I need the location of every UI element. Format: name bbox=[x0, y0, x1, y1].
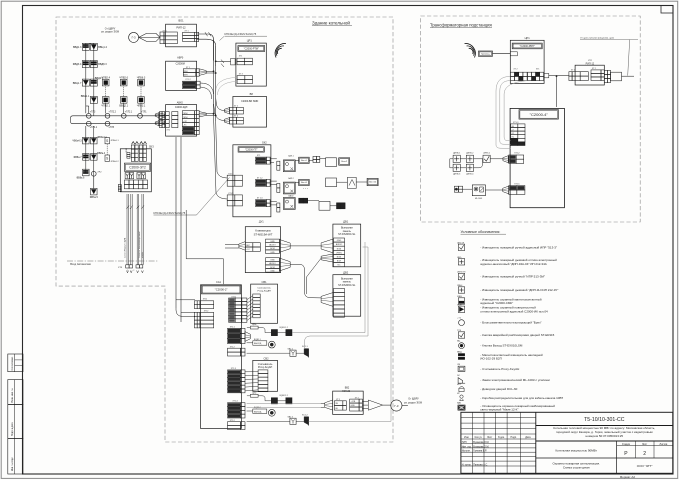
security sensor ФП8а5.1 bbox=[105, 138, 119, 144]
svg-text:ИО-102-29 Б2П: ИО-102-29 Б2П bbox=[480, 357, 501, 361]
svg-text:адресный "С2000-СМК": адресный "С2000-СМК" bbox=[480, 301, 513, 305]
svg-text:1: 1 bbox=[127, 270, 128, 272]
detector ВВД2.1 bbox=[90, 77, 104, 86]
smoke detector ДИП6.3 bbox=[453, 164, 461, 175]
svg-text:Грозозащ.: Грозозащ. bbox=[481, 53, 490, 55]
svg-text:Вход Автоматики: Вход Автоматики bbox=[70, 262, 91, 266]
antenna UR1 bbox=[275, 43, 286, 57]
circuit breaker Г-3 bbox=[129, 32, 139, 42]
svg-text:ГИП: ГИП bbox=[462, 441, 467, 444]
svg-text:БАЛ.1: БАЛ.1 bbox=[288, 155, 293, 158]
svg-text:ВВД: ВВД bbox=[457, 352, 462, 354]
svg-text:Вент1: Вент1 bbox=[301, 160, 307, 162]
detector ВВЦ2.1 row2 bbox=[119, 97, 128, 108]
svg-text:ИСТ: ИСТ bbox=[457, 384, 462, 386]
svg-text:- Извещатель пожарный ручной ": - Извещатель пожарный ручной "ИПР 513-3М… bbox=[480, 275, 545, 279]
svg-text:ST-DS306C-SL: ST-DS306C-SL bbox=[338, 233, 356, 236]
svg-text:ДИП6.3: ДИП6.3 bbox=[453, 174, 461, 176]
svg-text:ЧПВ2.6: ЧПВ2.6 bbox=[119, 77, 128, 80]
svg-text:ХТ 1.2: ХТ 1.2 bbox=[257, 177, 263, 179]
detector ФВД3.4 bbox=[73, 61, 90, 68]
terminal BB4 bbox=[225, 242, 260, 252]
svg-text:ЧПВ3.1: ЧПВ3.1 bbox=[137, 105, 146, 108]
svg-text:"С2000-4": "С2000-4" bbox=[530, 112, 549, 117]
power unit BB2 ГЗН-20 bbox=[321, 387, 363, 415]
svg-text:ST-DS306C-SL: ST-DS306C-SL bbox=[338, 284, 356, 287]
stub wires to bus bbox=[86, 103, 141, 114]
svg-text:свето-звуковой "Маяк-12-К": свето-звуковой "Маяк-12-К" bbox=[480, 408, 518, 412]
svg-text:(FER): (FER) bbox=[336, 252, 342, 254]
cabinet AVXO С2000-КДЛ bbox=[155, 101, 199, 136]
svg-text:АВХ0: АВХ0 bbox=[177, 101, 184, 104]
door switch SA2.1 bbox=[247, 347, 297, 356]
detector ФВ8а.7 bbox=[74, 154, 90, 161]
svg-text:ДВ1: ДВ1 bbox=[343, 220, 348, 224]
svg-text:ХТ11: ХТ11 bbox=[203, 299, 207, 301]
svg-text:+ТЛ1: +ТЛ1 bbox=[141, 112, 147, 114]
cable label KPSE bottom bbox=[154, 178, 230, 216]
svg-text:Согласовано: Согласовано bbox=[12, 356, 14, 371]
loop merge to KDL bbox=[159, 113, 166, 126]
svg-text:ST-MS19A-WT: ST-MS19A-WT bbox=[254, 232, 273, 236]
wires KDL right to trunk bbox=[199, 112, 216, 117]
svg-text:SC1.1: SC1.1 bbox=[302, 346, 308, 348]
svg-text:Формат А2: Формат А2 bbox=[620, 475, 635, 479]
wires trunks to CA1 grids bbox=[176, 300, 195, 317]
svg-text:Здание котельной: Здание котельной bbox=[312, 19, 350, 25]
svg-text:GND: GND bbox=[351, 405, 356, 407]
svg-text:SC: SC bbox=[457, 375, 460, 377]
svg-text:+ТЛ5: +ТЛ5 bbox=[109, 127, 115, 129]
svg-text:ДУ1: ДУ1 bbox=[259, 220, 264, 224]
dashed zone - transformer substation bbox=[421, 16, 641, 222]
exit button group XT1.5 bbox=[454, 185, 508, 200]
svg-text:GND: GND bbox=[337, 240, 342, 242]
panel DV2 ST-DS306C-SL bbox=[321, 270, 361, 317]
svg-text:Бузакова О.М.: Бузакова О.М. bbox=[473, 445, 489, 448]
block B8 С2000-БИ SMD bbox=[224, 92, 266, 127]
svg-text:Лист: Лист bbox=[487, 436, 493, 439]
wires keyboard to panel DV1 bbox=[290, 245, 321, 247]
junction UR1 to trunk bbox=[215, 61, 237, 96]
fan circuit row 3 bbox=[270, 194, 345, 212]
wires SK2 left to trunk bbox=[214, 114, 228, 199]
svg-text:Н. контр.: Н. контр. bbox=[462, 463, 472, 466]
svg-text:ВВД8.3: ВВД8.3 bbox=[98, 63, 107, 66]
svg-text:В8: В8 bbox=[250, 92, 254, 96]
svg-text:GND: GND bbox=[270, 241, 275, 243]
terminals XT8 bbox=[126, 265, 144, 273]
svg-text:в ЩРА: в ЩРА bbox=[141, 252, 144, 258]
svg-text:С2000-КДЛ: С2000-КДЛ bbox=[175, 106, 188, 109]
svg-text:ХТ1: ХТ1 bbox=[536, 69, 539, 71]
smoke detector ДИП6.4 bbox=[466, 164, 474, 175]
door switch SA2.2 bbox=[247, 415, 297, 424]
svg-text:ХТ1.4: ХТ1.4 bbox=[233, 401, 238, 403]
svg-text:2: 2 bbox=[133, 270, 134, 272]
svg-text:+12В: +12В bbox=[351, 401, 356, 403]
cable bundle Г-3 to РИП bbox=[139, 33, 160, 41]
svg-text:ВВЦ1.4: ВВЦ1.4 bbox=[98, 46, 107, 49]
svg-text:ВЦ: ВЦ bbox=[457, 341, 460, 343]
svg-text:- Замок электромеханический ML: - Замок электромеханический ML-100К с ус… bbox=[480, 378, 549, 382]
svg-text:С2000М: С2000М bbox=[176, 63, 185, 66]
security sensor ФП8а5.2 bbox=[105, 144, 119, 163]
svg-text:Сигнал "Пожар" в ЩРА: Сигнал "Пожар" в ЩРА bbox=[123, 237, 126, 258]
svg-text:ВЫХОД: ВЫХОД bbox=[254, 343, 262, 345]
svg-text:. . .: . . . bbox=[303, 186, 308, 190]
button BQB1.1 exit bbox=[247, 339, 276, 348]
svg-text:BQB1.1.2: BQB1.1.2 bbox=[280, 327, 288, 329]
legend item КР bbox=[457, 393, 563, 401]
top-right copy box bbox=[661, 6, 673, 14]
svg-text:Г-3: Г-3 bbox=[132, 36, 136, 40]
detector ВВД1.3 bbox=[73, 43, 89, 50]
svg-text:Сигнал к "Мотооповещателям": Сигнал к "Мотооповещателям" bbox=[139, 231, 141, 258]
svg-text:ДВ2: ДВ2 bbox=[343, 270, 348, 274]
svg-text:Вент10: Вент10 bbox=[369, 182, 377, 184]
door contact SC1.1 bbox=[302, 346, 309, 357]
svg-text:см. раздел ЭОМ: см. раздел ЭОМ bbox=[101, 31, 119, 34]
svg-text:Исполн.: Исполн. bbox=[462, 450, 471, 453]
svg-text:ЧВ6а4.3: ЧВ6а4.3 bbox=[72, 140, 82, 143]
detector ВВЦ1.1 row2 bbox=[81, 95, 98, 103]
svg-text:ХТ1.3: ХТ1.3 bbox=[513, 122, 519, 124]
svg-text:ГЗН-20: ГЗН-20 bbox=[342, 390, 351, 393]
radio repeater UR1 С2000-РБН substation bbox=[510, 36, 544, 83]
svg-text:ВВЦ1.7: ВВЦ1.7 bbox=[73, 82, 82, 85]
svg-text:СА1: СА1 bbox=[216, 280, 222, 284]
svg-text:ЧПВ2.1: ЧПВ2.1 bbox=[101, 105, 110, 108]
svg-text:ХТ 1: ХТ 1 bbox=[571, 70, 575, 72]
svg-text:Подп. и дата: Подп. и дата bbox=[12, 422, 14, 436]
svg-text:S: S bbox=[106, 139, 108, 143]
resistor Ц20к door2 bbox=[247, 392, 271, 400]
svg-text:Котельная мощностью 90МВт: Котельная мощностью 90МВт bbox=[555, 448, 597, 452]
svg-text:ЧПВ6.3: ЧПВ6.3 bbox=[137, 77, 146, 80]
fan circuit row 1 bbox=[270, 155, 350, 172]
wire XT8 bus to CA1 top bbox=[186, 210, 223, 284]
lower loop wires bbox=[86, 126, 94, 189]
legend item +Т1 bbox=[457, 318, 541, 326]
mains feed label substation bbox=[580, 38, 638, 76]
legend item СВ bbox=[457, 364, 519, 372]
svg-text:ДИП6.2: ДИП6.2 bbox=[466, 153, 474, 155]
svg-text:КПСЭнг(А)-FRLS 5х2х0,75: КПСЭнг(А)-FRLS 5х2х0,75 bbox=[225, 32, 257, 36]
rotated wire labels bbox=[123, 231, 144, 258]
svg-text:ЛИН: ЛИН bbox=[183, 75, 188, 77]
svg-text:BCM: BCM bbox=[337, 257, 342, 259]
title block bbox=[461, 412, 673, 473]
svg-text:ЛИН: ЛИН bbox=[183, 117, 188, 119]
svg-text:ХТ12: ХТ12 bbox=[121, 186, 123, 190]
automation input dash-dot line bbox=[67, 261, 158, 269]
svg-text:N док.: N док. bbox=[498, 436, 505, 439]
wire BO1 to trunk bbox=[197, 34, 216, 66]
loop bus 1 with Бриз isolators bbox=[73, 112, 159, 119]
svg-text:РИП-12: РИП-12 bbox=[176, 26, 186, 30]
svg-text:ФВ8а.7: ФВ8а.7 bbox=[74, 156, 83, 159]
svg-text:ХТ 3: ХТ 3 bbox=[239, 74, 243, 76]
loop bus 2 with Бриз isolators bbox=[71, 116, 159, 129]
svg-text:АВР0: АВР0 bbox=[177, 56, 184, 59]
svg-text:С2000-ЭТ2: С2000-ЭТ2 bbox=[129, 165, 146, 169]
wire UR1 to РИП bbox=[544, 74, 569, 108]
antenna substation bbox=[465, 43, 476, 57]
svg-text:S: S bbox=[106, 157, 108, 161]
door contact SC1.2 bbox=[302, 414, 309, 425]
svg-text:"С2000-РТМ": "С2000-РТМ" bbox=[244, 47, 259, 50]
wires keyboard to panel DV2 bbox=[290, 258, 321, 298]
reader CB1 Proxy-KeyAH bbox=[251, 280, 278, 323]
svg-text:ВКС: ВКС bbox=[246, 245, 250, 247]
power label bottom bbox=[404, 397, 422, 404]
cable label KPSE top bbox=[220, 32, 268, 40]
svg-text:ФВД3.4: ФВД3.4 bbox=[73, 63, 82, 66]
svg-text:Условные обозначения:: Условные обозначения: bbox=[461, 230, 501, 234]
svg-text:СВ2: СВ2 bbox=[263, 356, 269, 360]
access controller CA1 С2000-2 bbox=[194, 280, 250, 430]
svg-text:см. раздел ЭОМ: см. раздел ЭОМ bbox=[404, 402, 422, 405]
svg-text:+ЛС: +ЛС bbox=[183, 121, 188, 123]
detector ВВД8.3 bbox=[90, 61, 107, 68]
svg-text:BQB2.2.2: BQB2.2.2 bbox=[280, 395, 288, 397]
svg-text:ЛИН: ЛИН bbox=[183, 71, 188, 73]
svg-text:ХТ 2: ХТ 2 bbox=[514, 69, 518, 71]
svg-text:- Доводчик дверей DCL-60: - Доводчик дверей DCL-60 bbox=[480, 387, 517, 391]
panel DV1 ST-DS306C-SL bbox=[321, 220, 361, 267]
svg-text:ВО1: ВО1 bbox=[178, 19, 184, 23]
legend item ИСТ bbox=[457, 384, 518, 391]
detector ФВ6а4.1 bbox=[90, 136, 107, 144]
svg-text:GND: GND bbox=[270, 252, 275, 254]
reader CB2 Proxy-KeyAH bbox=[253, 356, 278, 391]
svg-text:AUDIO: AUDIO bbox=[269, 262, 276, 265]
svg-text:Ц20к: Ц20к bbox=[252, 324, 257, 326]
svg-text:BCM: BCM bbox=[270, 267, 275, 269]
svg-text:ФВ8а.6: ФВ8а.6 bbox=[76, 176, 85, 179]
svg-text:ВВЦ2.1: ВВЦ2.1 bbox=[119, 105, 128, 108]
svg-text:ЛИН: ЛИН bbox=[183, 113, 188, 115]
svg-text:ХТ1.2: ХТ1.2 bbox=[514, 153, 520, 155]
svg-text:ФП8а5.1: ФП8а5.1 bbox=[111, 139, 120, 142]
svg-text:- Кнопка Выход ST-EX010LSM: - Кнопка Выход ST-EX010LSM bbox=[480, 344, 523, 348]
svg-text:GND: GND bbox=[270, 270, 275, 272]
svg-text:От щита питания (общеобм. щит): От щита питания (общеобм. щит) bbox=[580, 38, 614, 40]
svg-text:Листов: Листов bbox=[660, 443, 668, 446]
svg-text:ХТ1.5: ХТ1.5 bbox=[514, 183, 520, 185]
legend item 2ВП1ТЛ bbox=[457, 272, 545, 280]
trunk pair KDL to CA1 bbox=[176, 137, 181, 322]
svg-text:2: 2 bbox=[643, 451, 646, 457]
svg-text:Галкина В.Р.: Галкина В.Р. bbox=[473, 450, 487, 453]
wire РИП to mains bbox=[604, 70, 634, 82]
svg-text:"С2000-ПТ": "С2000-ПТ" bbox=[245, 148, 258, 151]
svg-text:Панкова А.С.: Панкова А.С. bbox=[473, 463, 488, 466]
svg-text:ДИП6.1: ДИП6.1 bbox=[453, 153, 461, 155]
dashed zone - boiler building bbox=[56, 17, 393, 442]
wires SK3 to XT8 terminals bbox=[127, 194, 143, 265]
manual call point ИПР6.1 bbox=[483, 153, 491, 163]
legend item ЧВ1- bbox=[457, 257, 557, 266]
wires UR1 down to С2000-4 bbox=[496, 76, 528, 148]
svg-text:"С2000-РБН": "С2000-РБН" bbox=[520, 45, 535, 48]
power source label bbox=[101, 28, 119, 34]
legend item ВВД bbox=[457, 352, 543, 361]
svg-text:ХТ1: ХТ1 bbox=[239, 55, 242, 57]
svg-text:Кол.уч: Кол.уч bbox=[475, 436, 483, 439]
format label bbox=[620, 475, 635, 479]
wires CA1 XT1.3 to CB2 bbox=[245, 372, 258, 391]
zone label transformer substation bbox=[430, 22, 492, 27]
svg-text:ML-100К: ML-100К bbox=[475, 198, 483, 200]
svg-text:+ТЛ2.2: +ТЛ2.2 bbox=[109, 112, 117, 114]
resistor Ц20к door1 bbox=[247, 324, 271, 332]
svg-text:Proxy-KeyAH: Proxy-KeyAH bbox=[258, 290, 272, 293]
svg-text:AUDIO: AUDIO bbox=[336, 243, 343, 246]
svg-text:оптико-электронный адресный С2: оптико-электронный адресный С2000-ИК исп… bbox=[480, 309, 548, 313]
svg-text:2ИП6.1: 2ИП6.1 bbox=[483, 153, 491, 155]
svg-text:ВВ2: ВВ2 bbox=[345, 387, 350, 390]
legend item ФОЛ bbox=[457, 303, 548, 313]
svg-text:С2000-БИ SMD: С2000-БИ SMD bbox=[241, 100, 258, 103]
svg-text:SК2: SК2 bbox=[262, 141, 267, 145]
zone label boiler building bbox=[312, 19, 352, 25]
svg-text:SC1.2: SC1.2 bbox=[302, 414, 308, 416]
svg-text:ХТ 1.2: ХТ 1.2 bbox=[185, 79, 190, 81]
svg-text:Дата: Дата bbox=[525, 436, 531, 439]
button BQB2.2 exit bbox=[247, 407, 276, 416]
detector ЧПВ2.6 bbox=[119, 77, 128, 86]
svg-text:SК3: SК3 bbox=[149, 145, 154, 149]
svg-text:БАЛ.2: БАЛ.2 bbox=[288, 177, 293, 180]
svg-text:ХТ1.5: ХТ1.5 bbox=[228, 193, 233, 195]
smoke detector ДИП6.2 bbox=[466, 153, 474, 163]
detector ЧПВ2.4 bbox=[101, 77, 110, 86]
surge protector block bbox=[478, 51, 510, 56]
svg-text:ХТ1.3: ХТ1.3 bbox=[231, 368, 236, 370]
svg-text:BCM: BCM bbox=[270, 248, 275, 250]
svg-text:ЦР1: ЦР1 bbox=[247, 39, 253, 43]
svg-text:- Извещатель пожарный ручной а: - Извещатель пожарный ручной адресный ИП… bbox=[480, 245, 557, 249]
svg-text:- Кнопка аварийной разблокиров: - Кнопка аварийной разблокировки дверей … bbox=[480, 333, 554, 337]
legend item ВЦ bbox=[457, 341, 523, 349]
svg-text:- Извещатель пожарный дымовой: - Извещатель пожарный дымовой "ДИП-3Н 04… bbox=[480, 288, 558, 292]
svg-text:+ТЛ3: +ТЛ3 bbox=[90, 112, 96, 114]
wires BB2 to breaker Г-3 bbox=[362, 400, 390, 410]
svg-text:Вент3: Вент3 bbox=[301, 182, 307, 184]
isolator +ТР.2 bbox=[91, 171, 102, 188]
detector ФВ6а.5 bbox=[90, 188, 99, 199]
power supply BO1 РИП-12 bbox=[160, 19, 199, 47]
svg-text:AUDIO: AUDIO bbox=[269, 244, 276, 247]
detector ВВЦ1.4 bbox=[90, 43, 107, 50]
legend item ВА1 bbox=[457, 402, 555, 412]
svg-text:СВ1: СВ1 bbox=[261, 280, 267, 284]
fan circuit row 2 bbox=[270, 177, 378, 194]
radio repeater UR1 С2000-РТМ bbox=[231, 39, 267, 87]
loop dotted segments bbox=[106, 85, 141, 97]
svg-text:BCM: BCM bbox=[337, 248, 342, 250]
panel С2000-4 bbox=[509, 108, 565, 207]
cabinet AVRO С2000М bbox=[166, 56, 200, 90]
svg-text:СВ: СВ bbox=[457, 364, 461, 366]
wires AVRO to trunk bbox=[199, 69, 216, 99]
svg-text:GND: GND bbox=[270, 260, 275, 262]
svg-text:Бузакова О.М.: Бузакова О.М. bbox=[473, 441, 489, 444]
svg-text:Нач. отд.: Нач. отд. bbox=[462, 445, 472, 448]
svg-text:Ц20к: Ц20к bbox=[252, 392, 257, 394]
svg-text:- Коробка распределительная дл: - Коробка распределительная для для кабе… bbox=[480, 396, 563, 400]
legend item ФВВ bbox=[457, 295, 542, 305]
detector ЧВ6а4.3 bbox=[72, 137, 89, 144]
svg-text:Proxy-KeyAH: Proxy-KeyAH bbox=[258, 366, 273, 369]
loop wire column 1 bbox=[86, 43, 94, 116]
trunk interface wires vertical bbox=[214, 40, 216, 122]
svg-text:От ЩВРУ: От ЩВРУ bbox=[408, 397, 419, 400]
legend item SC bbox=[457, 375, 550, 383]
svg-text:+ТЛ2.1: +ТЛ2.1 bbox=[125, 112, 133, 114]
svg-text:"С2000-2": "С2000-2" bbox=[215, 287, 228, 291]
svg-text:адресно-аналоговый "ДИП-34А-04: адресно-аналоговый "ДИП-34А-04" ИП 212-3… bbox=[480, 262, 546, 266]
svg-text:-ЛС: -ЛС bbox=[183, 125, 187, 127]
lock BQB2.2.2 bbox=[271, 395, 292, 404]
legend item ЧП1ТЛ bbox=[457, 242, 557, 250]
svg-text:Г-3: Г-3 bbox=[394, 404, 398, 408]
svg-text:ФП8а5.2: ФП8а5.2 bbox=[111, 160, 120, 163]
smoke detector ДИП6.1 bbox=[453, 153, 461, 163]
svg-text:ВВЦ1.1: ВВЦ1.1 bbox=[81, 95, 90, 98]
svg-text:ДИП6.4: ДИП6.4 bbox=[466, 174, 474, 176]
wires CA1 XT21 to CB1 bbox=[247, 296, 253, 321]
detector ВВЦ1.7 bbox=[73, 79, 90, 86]
cable count ticks bbox=[127, 32, 225, 209]
svg-text:Взам. инв. №: Взам. инв. № bbox=[11, 388, 14, 403]
breaker Г-3 bottom bbox=[391, 400, 408, 411]
svg-text:Вент2: Вент2 bbox=[341, 161, 347, 163]
svg-text:ХТ1: ХТ1 bbox=[167, 130, 170, 132]
svg-text:Стадия: Стадия bbox=[622, 443, 631, 446]
lock BQB1.1.2 bbox=[271, 327, 292, 336]
svg-text:ВЫХОД: ВЫХОД bbox=[254, 411, 262, 413]
svg-text:ВАО2: ВАО2 bbox=[289, 194, 294, 197]
svg-text:Изм.: Изм. bbox=[464, 436, 469, 439]
svg-text:ХТ 2: ХТ 2 bbox=[592, 68, 596, 70]
svg-text:ФВ6а.5: ФВ6а.5 bbox=[90, 196, 99, 199]
siren cabinet SK3 С2000-ЭТ2 bbox=[118, 142, 154, 192]
wires detectors to XT1.2 bbox=[450, 156, 508, 168]
svg-text:- Блок разветвительно-изолирую: - Блок разветвительно-изолирующий "Бриз" bbox=[480, 321, 541, 325]
detector ВВ8а.4 pair bbox=[90, 152, 105, 160]
svg-text:Подп.: Подп. bbox=[511, 436, 518, 439]
magnetic contact ФВ8а.6 bbox=[76, 169, 89, 179]
svg-text:номером 50:37:0050013:25: номером 50:37:0050013:25 bbox=[586, 434, 624, 438]
svg-text:Считыватель: Считыватель bbox=[257, 288, 271, 290]
svg-text:ХТ12: ХТ12 bbox=[204, 310, 209, 312]
power supply U22 РИП-12 bbox=[569, 60, 604, 85]
svg-text:ЧПВ2.4: ЧПВ2.4 bbox=[101, 77, 110, 80]
svg-text:ООО "ЭТТ": ООО "ЭТТ" bbox=[637, 464, 653, 468]
legend title bbox=[461, 230, 507, 234]
left margin stamp columns bbox=[8, 354, 23, 474]
keyboard DV1 ST-MS19A-WT bbox=[245, 220, 290, 273]
svg-text:BCH: BCH bbox=[337, 261, 342, 263]
wires B8 to trunk bbox=[214, 98, 225, 121]
detector ЧПВ2.1 row2 bbox=[101, 97, 110, 108]
svg-text:Лист: Лист bbox=[642, 443, 648, 446]
svg-text:ВВ8а.4: ВВ8а.4 bbox=[97, 152, 106, 155]
detector ЧПВ6.3 bbox=[137, 77, 146, 86]
